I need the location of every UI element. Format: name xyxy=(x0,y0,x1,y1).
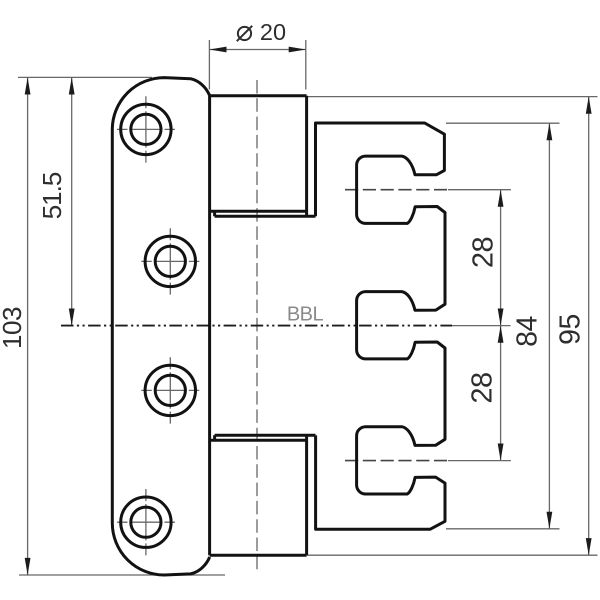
svg-text:28: 28 xyxy=(468,237,500,268)
svg-text:20: 20 xyxy=(260,19,286,45)
svg-text:BBL: BBL xyxy=(287,304,324,326)
svg-text:28: 28 xyxy=(467,372,499,403)
svg-text:84: 84 xyxy=(512,316,544,347)
svg-text:95: 95 xyxy=(555,314,587,345)
svg-text:51.5: 51.5 xyxy=(37,172,67,219)
svg-text:103: 103 xyxy=(0,307,27,349)
